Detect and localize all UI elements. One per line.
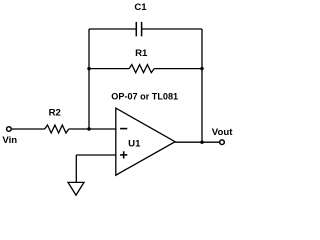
junction node output bbox=[200, 141, 203, 144]
wire ground drop bbox=[75, 155, 77, 182]
op-amp minus sign bbox=[120, 128, 127, 130]
wire output bbox=[175, 141, 220, 143]
wire input to R2 bbox=[11, 128, 44, 130]
capacitor C1 bbox=[136, 22, 141, 36]
junction node R1/C1 left bbox=[87, 67, 90, 70]
junction node R1/C1 right bbox=[200, 67, 203, 70]
junction node inverting input bbox=[87, 127, 90, 130]
wire top feedback right segment bbox=[142, 28, 202, 30]
resistor R2 bbox=[45, 125, 69, 133]
wire left vertical feedback bbox=[88, 29, 90, 129]
wire right vertical feedback bbox=[201, 29, 203, 142]
svg-text:U1: U1 bbox=[128, 139, 141, 150]
ground bbox=[68, 182, 84, 195]
svg-text:Vout: Vout bbox=[212, 127, 233, 138]
terminal Vin bbox=[7, 127, 12, 132]
svg-text:R2: R2 bbox=[49, 108, 61, 119]
svg-text:C1: C1 bbox=[134, 2, 147, 13]
svg-text:OP-07 or TL081: OP-07 or TL081 bbox=[111, 91, 178, 102]
wire R1 branch left bbox=[89, 68, 129, 70]
resistor R1 bbox=[129, 65, 154, 73]
wire non-inverting input bbox=[76, 154, 116, 156]
wire top feedback left segment bbox=[89, 28, 136, 30]
terminal Vout bbox=[220, 140, 225, 145]
svg-text:Vin: Vin bbox=[2, 135, 17, 146]
wire R2 to inverting input bbox=[69, 128, 116, 130]
svg-text:R1: R1 bbox=[135, 48, 148, 59]
wire R1 branch right bbox=[154, 68, 202, 70]
op-amp U1 bbox=[116, 108, 175, 175]
op-amp plus sign bbox=[120, 151, 127, 158]
